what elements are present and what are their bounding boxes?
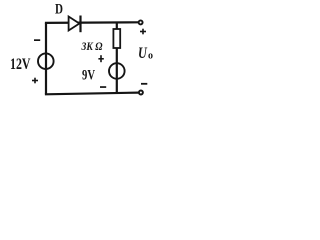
- wire left vertical: [45, 23, 47, 94]
- terminal bottom right: [139, 91, 143, 95]
- svg-text:3K Ω: 3K Ω: [81, 39, 103, 53]
- polarity minus 9V bottom: [100, 86, 106, 88]
- svg-text:12V: 12V: [10, 56, 31, 73]
- resistor R 3K ohm body: [113, 29, 120, 48]
- voltage source 12V circle: [38, 53, 54, 69]
- wire top horizontal: [45, 21, 139, 24]
- polarity minus output bottom: [141, 83, 147, 85]
- voltage source 9V circle: [109, 63, 125, 79]
- polarity plus 12V bottom: [32, 78, 38, 84]
- terminal top right: [139, 20, 143, 24]
- polarity minus 12V top: [34, 39, 40, 41]
- wire bottom horizontal: [45, 93, 139, 95]
- diode D cathode bar: [79, 16, 81, 33]
- svg-text:U: U: [138, 45, 148, 62]
- wire middle branch vertical: [116, 23, 118, 94]
- svg-text:o: o: [148, 51, 153, 62]
- svg-text:D: D: [55, 1, 63, 17]
- diode D triangle: [69, 17, 80, 31]
- polarity plus output top: [140, 29, 146, 35]
- svg-text:9V: 9V: [82, 67, 95, 83]
- polarity plus 9V top: [98, 55, 103, 62]
